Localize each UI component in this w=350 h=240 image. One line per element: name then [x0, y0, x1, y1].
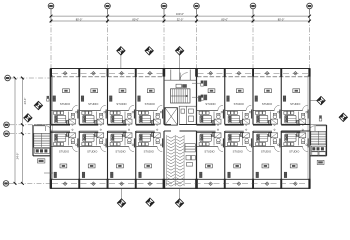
studio unit 114 (lower row): [225, 129, 252, 189]
grid bubble A: [5, 75, 11, 81]
svg-text:80'-0": 80'-0": [278, 17, 285, 21]
studio unit 102 (upper row): [79, 69, 106, 126]
keynote diamond (south, middle): [146, 198, 154, 206]
wall piers at top wall: [50, 68, 311, 76]
column grid dash-dot lines: [51, 9, 310, 187]
studio unit 105 (upper row): [197, 69, 224, 126]
corridor end walls right of last units: [281, 124, 309, 126]
studio unit 112 (lower row): [136, 129, 163, 189]
window symbol (south wall): [63, 182, 67, 186]
svg-text:80'-0": 80'-0": [76, 17, 83, 21]
right side keynote: box label: [317, 160, 324, 164]
top dimension line (overall): [51, 16, 310, 21]
window symbol (north wall): [63, 72, 67, 76]
studio unit 113 (lower row): [197, 129, 224, 189]
grid line stubs at dimension lines: [51, 9, 310, 22]
elevator: [165, 108, 177, 125]
window symbol (south wall): [120, 182, 124, 186]
grid bubble 1: [48, 3, 54, 9]
keynote diamond (north, entry): [175, 47, 183, 55]
studio unit 107 (upper row): [253, 69, 280, 126]
keynote tag boxes at unit 5 wall: [192, 81, 207, 101]
mailboxes: [185, 144, 195, 166]
keynote diamond (west, far): [24, 114, 32, 122]
svg-text:24'-0": 24'-0": [16, 153, 20, 160]
grid bubble 6: [307, 3, 313, 9]
studio unit 116 (lower row): [281, 129, 308, 189]
svg-text:24'-0": 24'-0": [23, 98, 27, 105]
studio unit 106 (upper row): [225, 69, 252, 126]
keynote diamond (south, right): [175, 199, 183, 207]
building outer walls: [51, 68, 311, 70]
keynote diamond (west wall): [34, 101, 42, 109]
wall piers at bottom wall: [50, 179, 311, 189]
studio unit 111 (lower row): [108, 129, 135, 189]
window symbol (south wall): [265, 182, 269, 186]
window symbol (north wall): [92, 72, 96, 76]
studio unit 108 (upper row): [281, 69, 308, 126]
lobby stair: [171, 89, 191, 103]
bottom keynote diamonds: [121, 189, 123, 200]
bike storage room (middle bay lower): [166, 135, 184, 186]
right side diamonds: [310, 100, 318, 102]
grid bubble 4: [194, 3, 200, 9]
window symbol (north wall): [294, 72, 298, 76]
keynote diamond row (top): [120, 54, 122, 68]
window symbol (north wall): [237, 72, 241, 76]
dimension tick marks: [50, 15, 311, 23]
lobby service rooms: [179, 106, 196, 124]
window symbol (north wall): [120, 72, 124, 76]
studio unit 103 (upper row): [108, 69, 135, 126]
left stair tower: [33, 125, 51, 156]
window symbol (south wall): [148, 182, 152, 186]
grid bubble 5: [250, 3, 256, 9]
svg-text:32'-0": 32'-0": [177, 17, 184, 21]
row grid bubbles A-D with dash-dot leaders: [9, 78, 51, 183]
lobby corridor walls: [164, 124, 171, 126]
entry vestibule (middle bay): [164, 79, 197, 81]
grid bubble 3: [161, 3, 167, 9]
studio unit 101 (upper row): [51, 69, 78, 126]
window glazing lines: [52, 72, 163, 74]
studio unit 109 (lower row): [51, 129, 78, 189]
left vertical dimension lines: [15, 78, 22, 183]
keynote diamond (east, far): [339, 113, 347, 121]
dimension texts: [76, 12, 285, 21]
keynote diamond (south, left): [117, 199, 125, 207]
window symbol (north wall): [209, 72, 213, 76]
svg-text:80'-0": 80'-0": [221, 17, 228, 21]
window symbol (north wall): [265, 72, 269, 76]
grid bubble B: [4, 122, 10, 128]
window symbol (south wall): [294, 182, 298, 186]
svg-text:80'-0": 80'-0": [132, 17, 139, 21]
right stair tower: [309, 125, 326, 156]
grid bubble C: [4, 131, 10, 137]
window symbol (north wall): [148, 72, 152, 76]
keynote diamond (east wall): [317, 96, 325, 104]
window symbol (south wall): [92, 182, 96, 186]
studio unit 115 (lower row): [253, 129, 280, 189]
studio unit 104 (upper row): [136, 69, 163, 126]
window symbol (south wall): [237, 182, 241, 186]
grid bubble D: [3, 181, 9, 187]
keynote diamond (north, middle): [145, 47, 153, 55]
svg-text:160'-0": 160'-0": [176, 12, 184, 16]
studio unit 110 (lower row): [79, 129, 106, 189]
grid bubble 2: [105, 3, 111, 9]
keynote diamond (north, left): [117, 47, 125, 55]
window symbol (south wall): [209, 182, 213, 186]
